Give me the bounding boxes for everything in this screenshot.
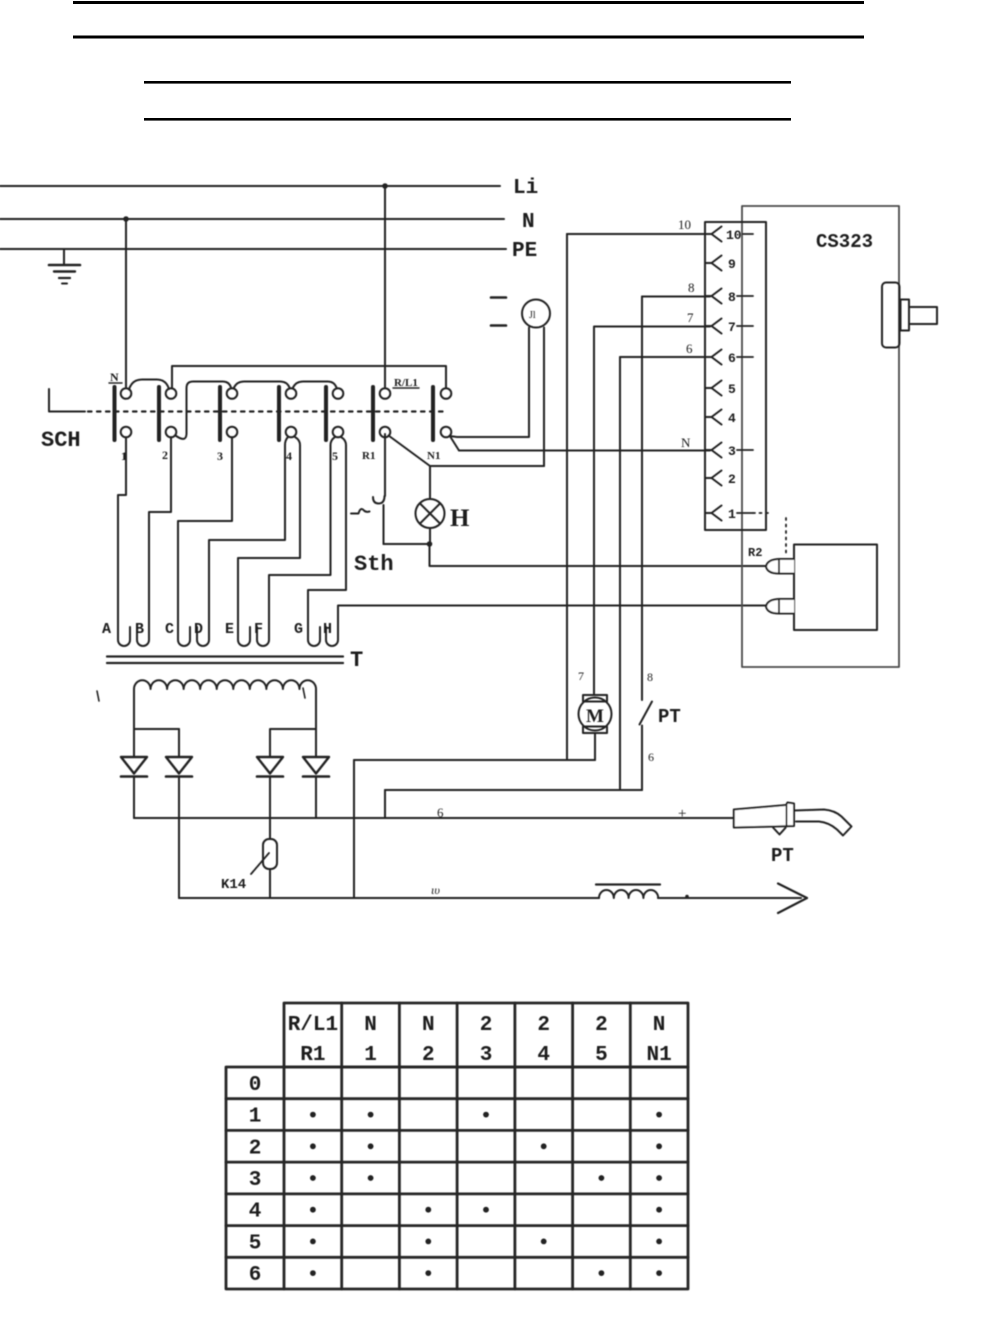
wire motor bottom horizontal [354,759,595,761]
svg-text:10: 10 [678,217,691,232]
node table dot row 6 col 7 [656,1270,662,1276]
connector Jl circle [522,300,550,328]
wire contact4 left branch to tap D [197,437,288,646]
wire PT trigger to horizontal [641,726,643,791]
svg-text:5: 5 [595,1044,608,1067]
svg-text:E: E [225,621,234,638]
svg-text:D: D [194,621,203,638]
svg-text:3: 3 [728,444,736,459]
torch PT nozzle [794,810,852,836]
diode D1 [121,757,147,774]
pin 8 of connector [705,289,722,304]
motor M wire from pin7 [593,327,595,695]
svg-text:N1: N1 [646,1044,671,1067]
wire tap H up to R2 lower wire [326,606,338,646]
svg-text:2: 2 [249,1137,262,1160]
title rule 4 [144,118,791,121]
node table dot row 1 col 1 [310,1112,316,1118]
wire lamp H bottom [429,528,431,544]
wire N bus [0,218,504,220]
svg-text:N1: N1 [427,450,440,462]
wire bridge contact1 top to contact2 top [129,380,169,390]
svg-text:PT: PT [658,706,681,728]
torch PT handle [734,803,794,828]
wire lower output bus right [658,897,801,899]
svg-text:N: N [653,1014,666,1037]
node table dot row 2 col 2 [368,1143,374,1149]
svg-text:4: 4 [286,449,292,463]
wire secondary right lead [179,689,316,757]
pin 1 of connector [705,506,722,521]
wire junction down to R2 upper wire [430,544,767,566]
node table dot row 4 col 1 [310,1207,316,1213]
svg-text:Sth: Sth [354,552,394,577]
wire L1 bus down to switch contact R/L1 [384,186,386,387]
svg-text:7: 7 [687,310,694,325]
title rule 3 [144,81,791,84]
motor M [583,695,607,702]
svg-text:N: N [681,435,691,450]
svg-text:10: 10 [726,228,742,243]
svg-text:1: 1 [364,1044,377,1067]
node table dot row 4 col 4 [483,1207,489,1213]
svg-text:CS323: CS323 [816,231,873,253]
wire junction to Sth [384,543,430,545]
wire Jl left lead [450,328,530,438]
node table dot row 1 col 4 [483,1112,489,1118]
connector strip outline [705,222,766,530]
ground [63,249,65,265]
svg-text:6: 6 [686,341,693,356]
svg-text:R1: R1 [300,1044,325,1067]
svg-text:2: 2 [162,448,168,462]
title rule 1 [73,1,864,4]
svg-text:4: 4 [249,1201,262,1224]
svg-text:8: 8 [647,670,653,684]
wire R1 node horizontal to Jl [430,465,544,467]
node junction on L1 bus [382,183,388,189]
connector R2 lower bullet [766,599,794,614]
transformer secondary winding [134,680,316,689]
table switch position chart [226,1003,688,1289]
node table dot row 3 col 7 [656,1175,662,1181]
svg-text:6: 6 [648,750,654,764]
wire pin7 entry [594,326,710,328]
svg-text:R/L1: R/L1 [288,1014,338,1037]
wire pin8 down to PT trigger [641,297,643,701]
switch SCH pole 1 [113,387,117,440]
wire pin1 dotted link to R2 [753,512,772,514]
svg-text:0: 0 [249,1074,262,1097]
wire PE bus [0,248,506,250]
connector Jl mating pin dashes [491,296,506,299]
svg-text:A: A [102,621,111,638]
diode D3 [257,757,283,774]
wire pin8 entry [642,296,710,298]
node table dot row 4 col 7 [656,1207,662,1213]
svg-text:3: 3 [249,1169,262,1192]
wire hook contact2 bottom to tap rail [176,382,232,439]
torch PT trigger nub [773,828,786,835]
node junction on N bus [123,216,129,222]
svg-text:R/L1: R/L1 [394,377,418,389]
svg-text:Jl: Jl [529,310,536,321]
node table dot row 6 col 1 [310,1270,316,1276]
svg-text:1: 1 [728,507,736,522]
node table dot row 3 col 2 [368,1175,374,1181]
module R2 box [794,545,877,631]
svg-text:6: 6 [437,805,444,820]
node table dot row 2 col 1 [310,1143,316,1149]
wire contact4 right branch to tap E [238,437,300,646]
svg-text:2: 2 [595,1014,608,1037]
svg-text:C: C [165,621,174,638]
svg-text:3: 3 [217,449,223,463]
wire pin6 long vertical [619,357,621,790]
wire riser contact2 top [172,366,446,389]
svg-text:ιυ: ιυ [431,883,440,897]
node table dot row 3 col 6 [599,1175,605,1181]
svg-text:3: 3 [480,1044,493,1067]
wire PT circuit to plus bus [384,790,386,818]
switch SCH mechanical dashed link [88,410,443,412]
svg-text:6: 6 [249,1264,262,1287]
wire contact5 right branch to tap G [308,437,346,646]
svg-text:4: 4 [728,411,736,426]
svg-text:+: + [678,806,686,822]
switch SCH pole 5 [324,387,328,440]
lamp H feed [429,466,431,499]
svg-text:8: 8 [688,280,695,295]
svg-text:SCH: SCH [41,428,81,453]
title rule 2 [73,36,864,39]
svg-text:2: 2 [422,1044,435,1067]
svg-text:M: M [586,706,604,727]
pin 3 of connector [705,443,722,458]
svg-text:7: 7 [728,320,736,335]
node table dot row 5 col 5 [541,1239,547,1245]
wire Jl right lead [543,328,545,467]
connector R2 upper bullet [766,559,794,574]
wire diode D4 to plus bus [315,777,317,819]
switch Sth thermostat [373,496,385,504]
switch SCH pole R1 [371,387,375,440]
pin 6 of connector [705,350,722,365]
pin 7 of connector [705,319,722,334]
svg-text:H: H [323,621,332,638]
diode D4 [303,757,329,774]
wire R1 bottom diagonal [389,436,431,467]
node table dot row 2 col 7 [656,1143,662,1149]
wire diode D1 to plus bus [133,777,135,819]
svg-text:9: 9 [728,257,736,272]
lamp H [416,499,445,528]
svg-text:2: 2 [480,1014,493,1037]
node table dot row 5 col 1 [310,1239,316,1245]
wire contact5 left branch to tap F [257,437,335,646]
svg-text:2: 2 [537,1014,550,1037]
wire tap rail contact3 to contact4 [234,382,290,388]
svg-text:B: B [135,621,144,638]
transformer winding end tick right [303,688,305,698]
svg-text:PT: PT [771,845,794,867]
node table dot row 2 col 5 [541,1143,547,1149]
node table dot row 3 col 1 [310,1175,316,1181]
svg-text:5: 5 [249,1232,262,1255]
wire contact3 to tap C [178,438,232,647]
wire contact2 to tap B [137,438,171,647]
switch PT trigger blade [640,702,653,725]
transformer winding end tick left [97,691,99,701]
switch SCH actuator tick [49,389,85,412]
pin 10 of connector [705,227,722,242]
switch SCH pole 2 [157,387,161,440]
wire secondary left lead [134,689,179,757]
thermal cutout K14 [263,839,277,869]
wire pin6 entry [620,356,710,358]
wire motor return to lower bus [353,760,355,898]
switch SCH pole 4 [277,387,281,440]
wire R1 bottom down to Sth [384,434,386,496]
node table dot row 4 col 3 [425,1207,431,1213]
svg-text:N: N [110,370,119,384]
pin 2 of connector [705,471,722,486]
wire lower output bus left [179,897,599,899]
node junction lamp bottom [427,541,433,547]
wire diode D2 to lower bus [178,777,180,899]
svg-text:5: 5 [332,449,338,463]
wire pin10 long vertical [566,234,568,760]
svg-text:T: T [350,648,363,673]
module CS323 outline [742,206,899,667]
wire pin10 entry [567,233,710,235]
svg-text:N: N [364,1014,377,1037]
svg-text:2: 2 [728,472,736,487]
wire contact1 to tap A [118,438,130,647]
node table dot row 6 col 3 [425,1270,431,1276]
wire N1 bottom to pin3 N wire [451,437,706,451]
wire motor M bottom lead [594,733,596,760]
potentiometer knob on CS323 [882,283,900,348]
svg-text:N: N [522,211,535,234]
svg-text:R1: R1 [362,450,375,462]
node table dot row 5 col 7 [656,1239,662,1245]
wire tap H to R2 lower wire [338,605,766,607]
svg-text:R2: R2 [748,546,762,560]
node output arrow electrode [778,884,807,914]
svg-text:4: 4 [537,1044,550,1067]
diode D2 [166,757,192,774]
node table dot row 1 col 7 [656,1112,662,1118]
svg-text:6: 6 [728,351,736,366]
svg-text:F: F [254,621,263,638]
switch SCH pole 3 [218,387,222,440]
pin 5 of connector [705,381,722,396]
svg-text:7: 7 [578,669,584,683]
node table dot row 5 col 3 [425,1239,431,1245]
wire pin3 entry N [459,450,710,452]
svg-text:Li: Li [513,177,538,200]
wire K14 to lower bus [269,869,271,898]
svg-text:8: 8 [728,290,736,305]
pin 9 of connector [705,256,722,271]
wire plus output bus [134,817,733,819]
svg-text:1: 1 [249,1106,262,1129]
node table dot row 1 col 2 [368,1112,374,1118]
svg-text:K14: K14 [221,877,246,893]
wire PT circuit horizontal [385,789,642,791]
node table dot row 6 col 6 [599,1270,605,1276]
inductor output choke [596,883,660,885]
transformer T core [107,655,343,657]
svg-text:PE: PE [512,240,537,263]
wire L1 bus [0,185,500,187]
wire N bus down to switch contact 1 [125,219,127,387]
switch SCH pole N1 [431,387,435,440]
svg-text:N: N [422,1014,435,1037]
svg-text:5: 5 [728,382,736,397]
svg-text:H: H [450,505,470,532]
pin 4 of connector [705,410,722,425]
wire diode D3 to K14 [269,777,271,840]
svg-text:G: G [294,621,303,638]
wire tap rail contact4 to contact5 [293,382,337,388]
